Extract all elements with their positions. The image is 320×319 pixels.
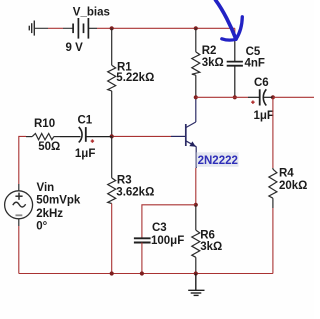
svg-text:2kHz: 2kHz <box>36 208 63 220</box>
ground GND2 (bottom) <box>188 274 204 296</box>
junction top rail / R1 <box>110 26 114 30</box>
battery V_bias 9V <box>73 18 97 39</box>
ground GND1 (left of battery, rotated) <box>29 21 34 36</box>
svg-text:Vin: Vin <box>37 182 55 194</box>
junction top rail / R2 <box>194 26 198 30</box>
svg-text:50Ω: 50Ω <box>38 141 60 153</box>
resistor R2 3k <box>192 28 200 97</box>
svg-text:R10: R10 <box>34 118 55 130</box>
svg-text:V_bias: V_bias <box>73 6 110 18</box>
resistor R10 50 ohm <box>26 134 60 140</box>
plus mark C1 <box>91 139 94 142</box>
svg-text:C1: C1 <box>78 115 93 127</box>
transistor Q1 2N2222 <box>186 97 197 168</box>
svg-text:3kΩ: 3kΩ <box>202 57 224 69</box>
svg-text:R2: R2 <box>202 45 217 57</box>
junction R3 bottom <box>110 271 114 275</box>
svg-text:1μF: 1μF <box>254 110 274 122</box>
wire Vin top to R10 <box>19 136 26 184</box>
svg-text:C5: C5 <box>246 46 261 58</box>
plus mark C6 <box>251 101 254 104</box>
svg-text:4nF: 4nF <box>245 58 265 70</box>
resistor R3 3.62k <box>108 136 116 203</box>
svg-text:20kΩ: 20kΩ <box>279 180 307 192</box>
svg-text:1μF: 1μF <box>75 148 95 160</box>
junction R6 bottom / ground <box>194 271 198 275</box>
wire emitter node to C3 <box>142 205 196 228</box>
capacitor C6 1uF <box>248 89 273 105</box>
wire emitter to node <box>195 168 197 205</box>
capacitor C1 1uF <box>60 127 112 142</box>
svg-text:R6: R6 <box>200 230 215 242</box>
svg-text:R3: R3 <box>117 174 132 186</box>
wire mid rail <box>196 96 314 98</box>
svg-text:0°: 0° <box>36 220 47 232</box>
annotation arrow (blue) <box>216 0 243 40</box>
junction C5 bottom <box>233 95 237 99</box>
resistor R1 5.22k <box>108 28 116 136</box>
wire R3 to bottom rail <box>111 204 113 274</box>
svg-text:5.22kΩ: 5.22kΩ <box>116 72 154 84</box>
junction collector node <box>194 95 198 99</box>
junction emitter node <box>194 203 198 207</box>
wire Vin bottom <box>18 226 20 274</box>
svg-text:50mVpk: 50mVpk <box>36 195 81 207</box>
wire base rail <box>112 135 186 137</box>
wire bottom rail <box>19 273 273 275</box>
junction C3 bottom <box>140 271 144 275</box>
svg-text:3kΩ: 3kΩ <box>200 241 222 253</box>
svg-text:3.62kΩ: 3.62kΩ <box>116 187 154 199</box>
voltage source Vin <box>5 184 33 226</box>
svg-text:9 V: 9 V <box>66 42 84 54</box>
capacitor C3 100uF <box>134 228 151 243</box>
junction C6 / R4 <box>271 95 275 99</box>
resistor R6 3k <box>192 205 200 274</box>
junction base node <box>110 134 114 138</box>
wire C3 to bottom rail <box>141 243 143 274</box>
resistor R4 20k <box>269 97 277 273</box>
label highlight 2N2222 <box>197 152 239 167</box>
svg-text:C3: C3 <box>152 222 167 234</box>
svg-text:C6: C6 <box>254 77 269 89</box>
svg-text:2N2222: 2N2222 <box>198 155 238 167</box>
svg-text:100μF: 100μF <box>151 235 184 247</box>
wire top rail <box>97 27 235 29</box>
capacitor C5 4nF <box>227 28 243 97</box>
svg-text:R4: R4 <box>279 167 294 179</box>
wire ground to battery <box>34 27 73 29</box>
